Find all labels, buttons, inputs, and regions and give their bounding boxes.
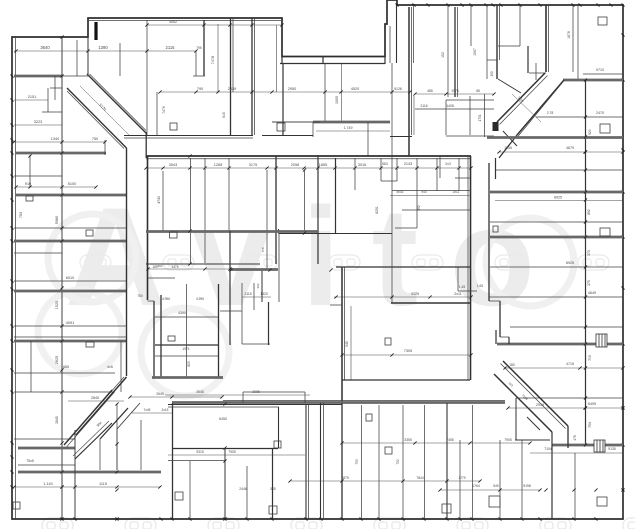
dim row y168 bbox=[146, 167, 470, 169]
wall y233 middle bbox=[279, 233, 392, 235]
central block top wall bbox=[146, 155, 471, 157]
corridor UL wall B vertical x126 long bbox=[126, 148, 128, 376]
bottom mid verticals bbox=[305, 405, 307, 519]
dim y465 bbox=[18, 464, 75, 466]
light wall x279 bbox=[278, 233, 280, 302]
svg-text:563: 563 bbox=[382, 162, 388, 166]
vertical x459 bbox=[458, 158, 460, 191]
svg-text:4552: 4552 bbox=[169, 20, 177, 24]
dim 2x1 bbox=[14, 99, 48, 101]
corridor LR cross wall bbox=[527, 417, 540, 430]
svg-text:8925: 8925 bbox=[566, 261, 574, 265]
svg-text:753: 753 bbox=[355, 459, 359, 465]
svg-text:7x45: 7x45 bbox=[144, 408, 151, 412]
lower-left small rooms bbox=[168, 460, 225, 462]
svg-text:5980: 5980 bbox=[55, 216, 59, 224]
dim vertical x414 bbox=[413, 96, 415, 135]
jog y301 bbox=[148, 300, 155, 302]
corridor UL wall B diagonal bbox=[67, 88, 127, 148]
wall y178 bbox=[455, 177, 470, 179]
thick wall y195 bbox=[16, 194, 126, 197]
vertical x437 bbox=[436, 158, 438, 191]
wall x88 below step bbox=[87, 37, 89, 74]
corridor LL diag D3 bbox=[100, 408, 128, 439]
vertical x392 bbox=[391, 63, 393, 156]
thick wall y344 right bbox=[497, 343, 623, 346]
svg-text:1408: 1408 bbox=[446, 104, 454, 108]
wall x262 bbox=[261, 269, 263, 302]
wall y74 bbox=[583, 73, 623, 75]
wall y398 bbox=[516, 397, 623, 399]
wall y46 bbox=[498, 45, 520, 47]
dim line y25 top rooms bbox=[147, 24, 282, 26]
wall x283 below notch bbox=[282, 63, 284, 135]
thick wall y80 right bbox=[563, 79, 623, 82]
svg-text:302: 302 bbox=[157, 264, 162, 268]
svg-text:2649: 2649 bbox=[156, 392, 164, 396]
svg-text:1764: 1764 bbox=[472, 484, 480, 488]
svg-text:2095: 2095 bbox=[252, 390, 260, 394]
svg-text:940: 940 bbox=[421, 190, 427, 194]
corridor UR vestibule corner bbox=[493, 122, 499, 131]
corridor LR wall A end vertical bbox=[567, 426, 569, 448]
svg-text:4679: 4679 bbox=[566, 146, 574, 150]
niche x381-x397 bbox=[380, 158, 382, 181]
svg-text:803: 803 bbox=[187, 361, 191, 367]
dim y269 bbox=[148, 268, 230, 270]
svg-text:4x5: 4x5 bbox=[107, 365, 113, 369]
dim ticks bbox=[14, 49, 17, 52]
svg-text:7844: 7844 bbox=[416, 476, 424, 480]
small room shelf bbox=[50, 87, 62, 89]
bottom squares bbox=[175, 492, 183, 500]
wall x342 double bbox=[341, 267, 343, 403]
room line y112 bbox=[42, 111, 62, 113]
wall y303 top of big room bbox=[391, 302, 471, 304]
corridor UR dim diag bbox=[512, 94, 541, 122]
outer boundary inner line top bbox=[88, 20, 282, 22]
wall x335 bbox=[335, 158, 337, 233]
notch band bottom wall y63 bbox=[280, 63, 385, 65]
vertical x141 bbox=[140, 420, 142, 470]
vertical x229 bbox=[228, 158, 230, 231]
boundary tick marks top bbox=[396, 4, 399, 7]
protrusion rect above y402 bbox=[243, 391, 305, 393]
vertical x75 bottom bbox=[74, 430, 76, 519]
vertical x230 bbox=[229, 231, 231, 345]
svg-text:1155: 1155 bbox=[504, 146, 512, 150]
jog y301 bbox=[489, 300, 500, 302]
svg-text:753: 753 bbox=[19, 212, 23, 218]
vertical x471 top bbox=[470, 5, 472, 46]
dim y152 bbox=[499, 151, 623, 153]
jog y73 bbox=[529, 72, 546, 74]
svg-text:1.45: 1.45 bbox=[459, 285, 465, 289]
svg-text:790: 790 bbox=[197, 87, 203, 91]
svg-text:2143: 2143 bbox=[404, 162, 412, 166]
svg-text:849: 849 bbox=[493, 484, 499, 488]
thick wall y448 bbox=[18, 447, 75, 450]
dim vertical x341 bbox=[341, 63, 343, 121]
vertical x446 bbox=[445, 100, 447, 135]
svg-text:4.996: 4.996 bbox=[196, 297, 204, 301]
wall x276 bbox=[275, 156, 277, 264]
svg-text:5100: 5100 bbox=[68, 182, 76, 186]
wall y267 right part bbox=[336, 266, 471, 268]
wall x390 notch side bbox=[389, 26, 391, 63]
corridor UR wall B inner bbox=[517, 83, 562, 138]
svg-text:2x11: 2x11 bbox=[453, 190, 460, 194]
thick wall y377 bbox=[152, 376, 223, 379]
dim row y481 bbox=[290, 480, 480, 482]
long wall x585 vertical bbox=[585, 80, 587, 445]
dim y413 bbox=[132, 412, 172, 414]
wall y170 bbox=[495, 169, 623, 171]
vertical x392 long bbox=[391, 156, 393, 303]
dim y297 bbox=[334, 296, 471, 298]
central block right wall bbox=[470, 156, 472, 380]
square room symbol x277 bbox=[277, 123, 285, 131]
dim row bottom right bbox=[440, 489, 540, 491]
corridor LL room verticals bbox=[99, 439, 101, 470]
svg-text:2625: 2625 bbox=[55, 356, 59, 364]
tab under 6450 room bbox=[274, 441, 281, 448]
wall y317 bbox=[155, 316, 218, 318]
dim y455 bbox=[168, 454, 305, 456]
svg-text:2839: 2839 bbox=[228, 87, 236, 91]
wall x455 double bbox=[454, 7, 456, 97]
thick wall y192 bbox=[490, 191, 623, 194]
svg-text:9135: 9135 bbox=[608, 447, 616, 451]
tab y338 bbox=[168, 336, 175, 341]
corridor UL wall A diagonal bbox=[87, 74, 146, 133]
svg-text:7476: 7476 bbox=[162, 106, 166, 114]
svg-text:1.140: 1.140 bbox=[43, 482, 53, 486]
wall x497 double bbox=[496, 5, 498, 79]
thick wall y341 bbox=[14, 340, 126, 343]
long thick corridor wall y402 bbox=[172, 401, 505, 404]
wall x230 top rooms bbox=[230, 18, 232, 135]
dim y395 bbox=[165, 394, 310, 396]
vertical x440 bbox=[439, 156, 441, 178]
door tab y343 bbox=[86, 342, 94, 347]
svg-text:3125: 3125 bbox=[411, 292, 419, 296]
vertical x520 bbox=[519, 5, 521, 46]
wall y100 bbox=[446, 99, 494, 101]
svg-text:2845: 2845 bbox=[91, 396, 99, 400]
svg-text:180: 180 bbox=[509, 363, 515, 367]
boundary tick marks left bbox=[11, 75, 14, 78]
dim 1749 bbox=[316, 130, 390, 132]
svg-text:7104: 7104 bbox=[544, 447, 552, 451]
svg-text:150: 150 bbox=[490, 71, 494, 77]
svg-text:3543: 3543 bbox=[169, 163, 177, 167]
svg-text:478: 478 bbox=[573, 435, 577, 441]
vertical x313 bbox=[312, 122, 314, 137]
vertical x528 bbox=[527, 46, 529, 73]
door hatch rect y340 bbox=[596, 334, 607, 347]
svg-text:302: 302 bbox=[256, 283, 260, 288]
svg-text:2879: 2879 bbox=[341, 476, 349, 480]
thick wall y288 bbox=[14, 290, 126, 293]
svg-text:75x5: 75x5 bbox=[26, 459, 34, 463]
jog y337 bbox=[500, 336, 509, 338]
vertical x117 bbox=[116, 404, 118, 470]
svg-text:3640: 3640 bbox=[40, 45, 50, 50]
corridor LR wall B bbox=[494, 374, 552, 432]
vertical x536 bbox=[535, 63, 537, 80]
central block left wall bbox=[147, 156, 149, 300]
vertical x470 bbox=[469, 96, 471, 135]
wall y344 bbox=[242, 343, 270, 345]
svg-text:750: 750 bbox=[92, 137, 98, 141]
svg-text:7455: 7455 bbox=[446, 438, 454, 442]
room line y281 bbox=[14, 280, 126, 282]
svg-text:6450: 6450 bbox=[219, 417, 227, 421]
thick wall y153 bbox=[16, 152, 106, 155]
dim 1140/1115 bbox=[14, 486, 160, 488]
corridor UR wall B lower bbox=[499, 135, 517, 158]
wall y311 bbox=[220, 310, 242, 312]
vertical x55 bbox=[54, 76, 56, 100]
thick wall y269 piece bbox=[230, 268, 278, 271]
corridor LR wall y440 bbox=[515, 439, 550, 441]
svg-text:6010: 6010 bbox=[66, 276, 74, 280]
room line y439 bbox=[14, 438, 75, 440]
svg-text:1779: 1779 bbox=[458, 476, 465, 480]
svg-text:4715: 4715 bbox=[566, 362, 574, 366]
wall x218 double bbox=[218, 284, 220, 377]
vertical x48 bbox=[47, 88, 49, 112]
vertical x448 top bbox=[447, 6, 449, 97]
svg-text:1.65: 1.65 bbox=[477, 284, 483, 288]
svg-text:750: 750 bbox=[137, 294, 143, 298]
wall y291 bbox=[458, 290, 477, 292]
svg-text:3175: 3175 bbox=[249, 163, 257, 167]
boundary tick marks right bbox=[622, 34, 625, 37]
wall x152 double bbox=[153, 301, 155, 377]
svg-text:1268: 1268 bbox=[214, 163, 222, 167]
svg-text:9126: 9126 bbox=[394, 87, 402, 91]
svg-text:2950: 2950 bbox=[288, 87, 296, 91]
wall y190 bbox=[392, 190, 471, 192]
inner verticals upper part bbox=[162, 171, 164, 232]
wall y122 bbox=[272, 121, 320, 123]
thick wall y445 right bbox=[552, 444, 623, 447]
vertical x368 bbox=[367, 122, 369, 156]
thick wall y472 bbox=[18, 471, 161, 474]
dim vertical x351 bbox=[350, 306, 352, 380]
room 6450 top wall bbox=[168, 404, 342, 406]
dim vertical x218 bbox=[217, 24, 219, 92]
svg-text:1475: 1475 bbox=[171, 265, 178, 269]
corridor UR vertical x495 bbox=[495, 158, 497, 179]
thick wall y231 left part bbox=[146, 230, 318, 233]
square top right bbox=[598, 17, 607, 25]
svg-text:3355: 3355 bbox=[404, 438, 412, 442]
svg-text:4390: 4390 bbox=[178, 311, 186, 315]
stepped wall x500 bbox=[499, 301, 501, 337]
svg-text:2115: 2115 bbox=[165, 45, 175, 50]
door tab bbox=[26, 196, 33, 201]
tab below y231 bbox=[170, 232, 178, 238]
vertical x458 bbox=[457, 267, 459, 291]
svg-text:6x5: 6x5 bbox=[222, 112, 226, 118]
svg-text:1971: 1971 bbox=[182, 347, 190, 351]
square right y128 bbox=[600, 124, 610, 133]
top rooms verticals bbox=[146, 20, 148, 135]
corridor LL diag D4 bbox=[117, 403, 140, 429]
room line y373 bbox=[14, 372, 115, 374]
corridor LL diag D2 bbox=[64, 390, 112, 445]
dim y408 bbox=[508, 407, 623, 409]
vertical x325 bbox=[324, 63, 326, 121]
vertical x413 top bbox=[413, 5, 415, 63]
door hatch rect y445 bbox=[594, 440, 605, 452]
dim vertical x31 bbox=[30, 341, 32, 392]
svg-text:4091: 4091 bbox=[66, 321, 74, 325]
room line y228 bbox=[14, 227, 126, 229]
dim y453 bottom right bbox=[530, 452, 623, 454]
room line y253 bbox=[14, 252, 62, 254]
corridor LR vertical x516 bbox=[515, 398, 517, 440]
corridor UR vestibule inner wall bbox=[503, 131, 517, 146]
svg-text:2918: 2918 bbox=[536, 403, 544, 407]
svg-text:2115: 2115 bbox=[244, 292, 251, 296]
thick wall y237 bbox=[490, 236, 623, 239]
svg-text:545: 545 bbox=[345, 341, 349, 347]
svg-text:1567: 1567 bbox=[473, 48, 477, 56]
svg-text:7305: 7305 bbox=[404, 349, 412, 353]
room 6450 right wall bbox=[278, 407, 280, 448]
svg-text:719: 719 bbox=[588, 355, 592, 361]
svg-text:373: 373 bbox=[587, 250, 591, 256]
vertical x267 bbox=[266, 170, 268, 269]
corridor LR wall B end vertical bbox=[551, 432, 553, 519]
boundary tick marks bottom bbox=[61, 518, 64, 521]
dim vertical x30 bbox=[29, 155, 31, 187]
dim y368 bbox=[505, 367, 623, 369]
dim 1340/750 bbox=[14, 141, 105, 143]
svg-text:892: 892 bbox=[587, 209, 591, 215]
black wall stub near x96 bbox=[94, 22, 97, 40]
dim 910/5100 bbox=[16, 186, 96, 188]
svg-text:718: 718 bbox=[261, 247, 265, 252]
svg-text:4649: 4649 bbox=[588, 291, 596, 295]
svg-text:9315: 9315 bbox=[196, 450, 204, 454]
svg-text:2645: 2645 bbox=[196, 390, 204, 394]
tab left of wall y237 bbox=[493, 226, 498, 232]
svg-text:2x15: 2x15 bbox=[162, 408, 169, 412]
svg-text:3223: 3223 bbox=[34, 120, 42, 124]
vertical x120 bbox=[119, 43, 121, 76]
svg-text:1390: 1390 bbox=[98, 45, 108, 50]
svg-text:1855: 1855 bbox=[319, 163, 327, 167]
corridor UL wall A end vertical bbox=[145, 132, 147, 158]
dim y278 bbox=[148, 277, 175, 279]
wall y109 bbox=[415, 108, 494, 110]
svg-text:920: 920 bbox=[588, 129, 592, 135]
small triangle room diag bbox=[498, 79, 521, 93]
svg-text:2446: 2446 bbox=[239, 487, 247, 491]
dim 2x45 bbox=[68, 400, 124, 402]
wall y117 bbox=[536, 116, 623, 118]
wall x396 double bbox=[396, 5, 398, 63]
room line y222 bbox=[490, 221, 623, 223]
vertical x417 bbox=[416, 158, 418, 228]
svg-text:545: 545 bbox=[270, 487, 276, 491]
corridor LR wall A bbox=[503, 361, 568, 426]
wall x409 vertical double bbox=[408, 7, 410, 156]
watermark logo pills row bbox=[80, 255, 111, 270]
room line y267 bbox=[490, 266, 623, 268]
wall y136 right piece bbox=[446, 135, 494, 137]
svg-text:152: 152 bbox=[441, 52, 445, 58]
svg-text:88: 88 bbox=[476, 89, 480, 93]
stepped wall x509 bbox=[508, 337, 510, 344]
dim y397 bbox=[130, 396, 222, 398]
dim line y92 bbox=[160, 91, 410, 93]
square room symbol x170 bbox=[170, 123, 177, 130]
svg-text:3016: 3016 bbox=[358, 163, 366, 167]
wall y122 thick part bbox=[313, 121, 390, 124]
svg-text:8251: 8251 bbox=[375, 206, 379, 214]
svg-text:2845: 2845 bbox=[55, 416, 59, 424]
svg-text:1320: 1320 bbox=[260, 292, 268, 296]
corridor UL dim diag bbox=[80, 86, 130, 136]
room line y326 bbox=[14, 325, 126, 327]
svg-text:2058: 2058 bbox=[291, 163, 299, 167]
square tab y232 bbox=[86, 230, 93, 236]
outer boundary inner line left bbox=[15, 37, 17, 519]
svg-text:752: 752 bbox=[396, 459, 400, 465]
svg-text:4743: 4743 bbox=[157, 196, 161, 204]
svg-text:1.749: 1.749 bbox=[344, 126, 353, 130]
watermark giant circle arcs bbox=[48, 214, 136, 302]
svg-text:1005: 1005 bbox=[335, 96, 339, 104]
svg-text:5x43: 5x43 bbox=[397, 190, 404, 194]
room line y297 bbox=[489, 296, 623, 298]
thick wall y241 bbox=[14, 240, 126, 243]
svg-text:1751: 1751 bbox=[478, 114, 482, 121]
svg-text:1340: 1340 bbox=[51, 137, 59, 141]
svg-text:7905: 7905 bbox=[228, 450, 236, 454]
svg-text:2x11: 2x11 bbox=[454, 292, 462, 296]
room line y327 bbox=[510, 326, 623, 328]
vertical x186 bbox=[186, 284, 188, 377]
wall x318 bbox=[317, 156, 319, 264]
svg-text:4.996: 4.996 bbox=[162, 297, 170, 301]
svg-text:7478: 7478 bbox=[211, 56, 215, 64]
svg-text:1115: 1115 bbox=[99, 482, 107, 486]
svg-text:4520: 4520 bbox=[351, 87, 359, 91]
svg-text:2.78: 2.78 bbox=[547, 111, 554, 115]
dim y355 7305 bbox=[342, 354, 470, 356]
room 6450 bottom wall bbox=[172, 448, 278, 450]
svg-text:485: 485 bbox=[427, 89, 433, 93]
notch band piers bbox=[281, 56, 283, 64]
thick wall y137 bbox=[487, 136, 623, 139]
vertical x484 bbox=[484, 94, 486, 137]
wall y228 short bbox=[395, 227, 417, 229]
middle-right verticals bbox=[241, 283, 243, 344]
stepped wall x489 bbox=[488, 163, 490, 301]
small square near boundary bbox=[13, 502, 20, 509]
dim line 3640/1390/2115 bbox=[14, 50, 196, 52]
corridor UR wall A bbox=[497, 73, 545, 122]
svg-text:2116: 2116 bbox=[420, 104, 427, 108]
wall y345 bbox=[155, 344, 218, 346]
